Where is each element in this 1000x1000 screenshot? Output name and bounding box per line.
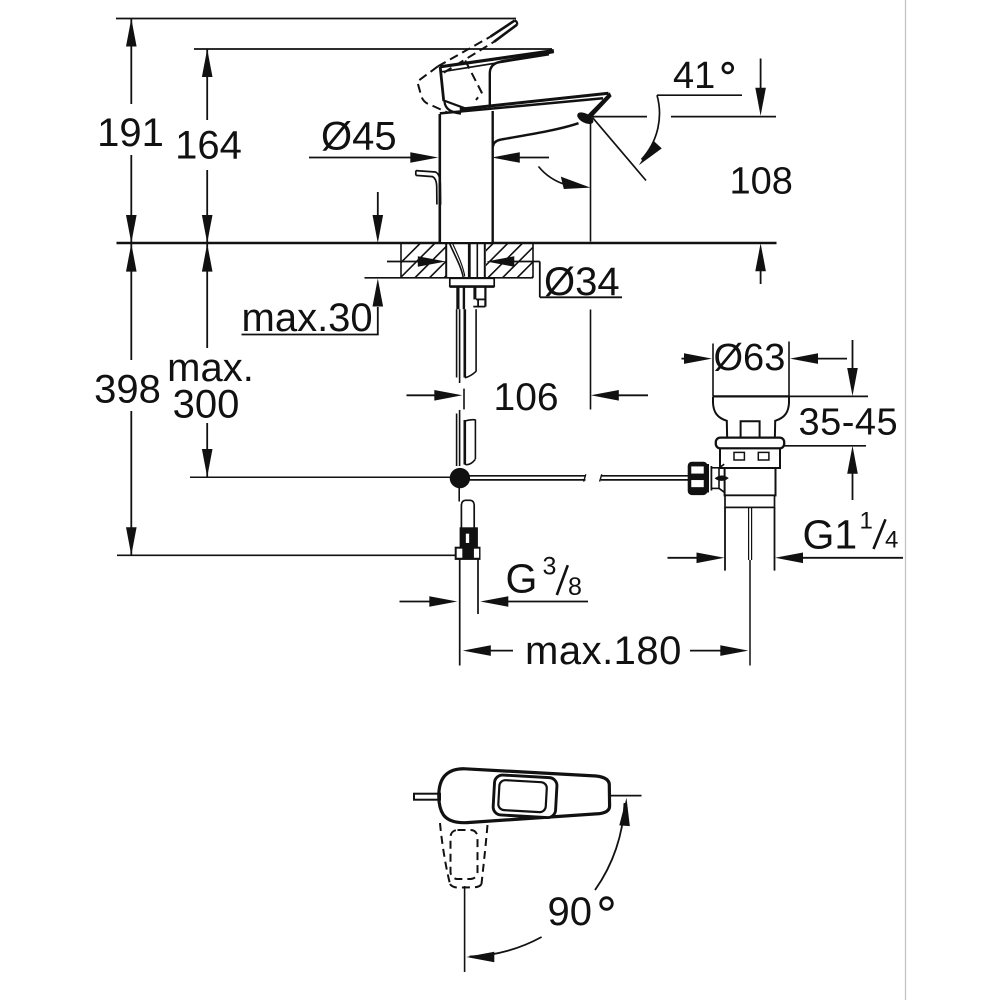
svg-text:Ø45: Ø45 bbox=[321, 115, 397, 159]
svg-text:106: 106 bbox=[494, 376, 559, 419]
svg-text:4: 4 bbox=[885, 527, 898, 554]
svg-text:max.180: max.180 bbox=[525, 629, 682, 673]
svg-text:35-45: 35-45 bbox=[799, 402, 899, 444]
svg-text:8: 8 bbox=[568, 573, 582, 601]
svg-text:G: G bbox=[506, 556, 538, 602]
svg-text:41: 41 bbox=[673, 55, 715, 97]
svg-text:3: 3 bbox=[543, 553, 557, 581]
svg-text:Ø34: Ø34 bbox=[544, 260, 620, 304]
svg-text:300: 300 bbox=[173, 383, 240, 427]
svg-text:398: 398 bbox=[94, 368, 161, 412]
svg-text:90: 90 bbox=[548, 890, 593, 934]
svg-text:191: 191 bbox=[97, 111, 164, 155]
svg-text:164: 164 bbox=[175, 124, 242, 168]
svg-text:max.30: max.30 bbox=[242, 296, 373, 340]
svg-text:Ø63: Ø63 bbox=[714, 337, 786, 379]
svg-text:1: 1 bbox=[860, 508, 873, 535]
svg-text:G1: G1 bbox=[803, 512, 858, 558]
svg-text:108: 108 bbox=[730, 161, 793, 203]
